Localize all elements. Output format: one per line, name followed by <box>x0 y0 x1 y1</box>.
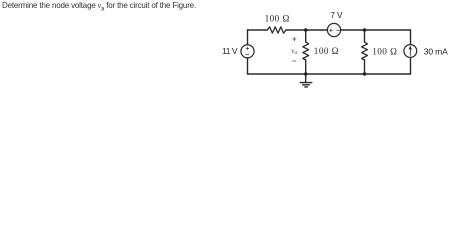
svg-text:11 V: 11 V <box>222 46 238 56</box>
svg-text:30 mA: 30 mA <box>424 47 448 57</box>
svg-text:7 V: 7 V <box>330 11 343 20</box>
svg-text:a: a <box>294 50 297 56</box>
svg-text:100 Ω: 100 Ω <box>265 14 290 24</box>
svg-text:100 Ω: 100 Ω <box>372 46 397 56</box>
svg-text:100 Ω: 100 Ω <box>314 46 339 56</box>
